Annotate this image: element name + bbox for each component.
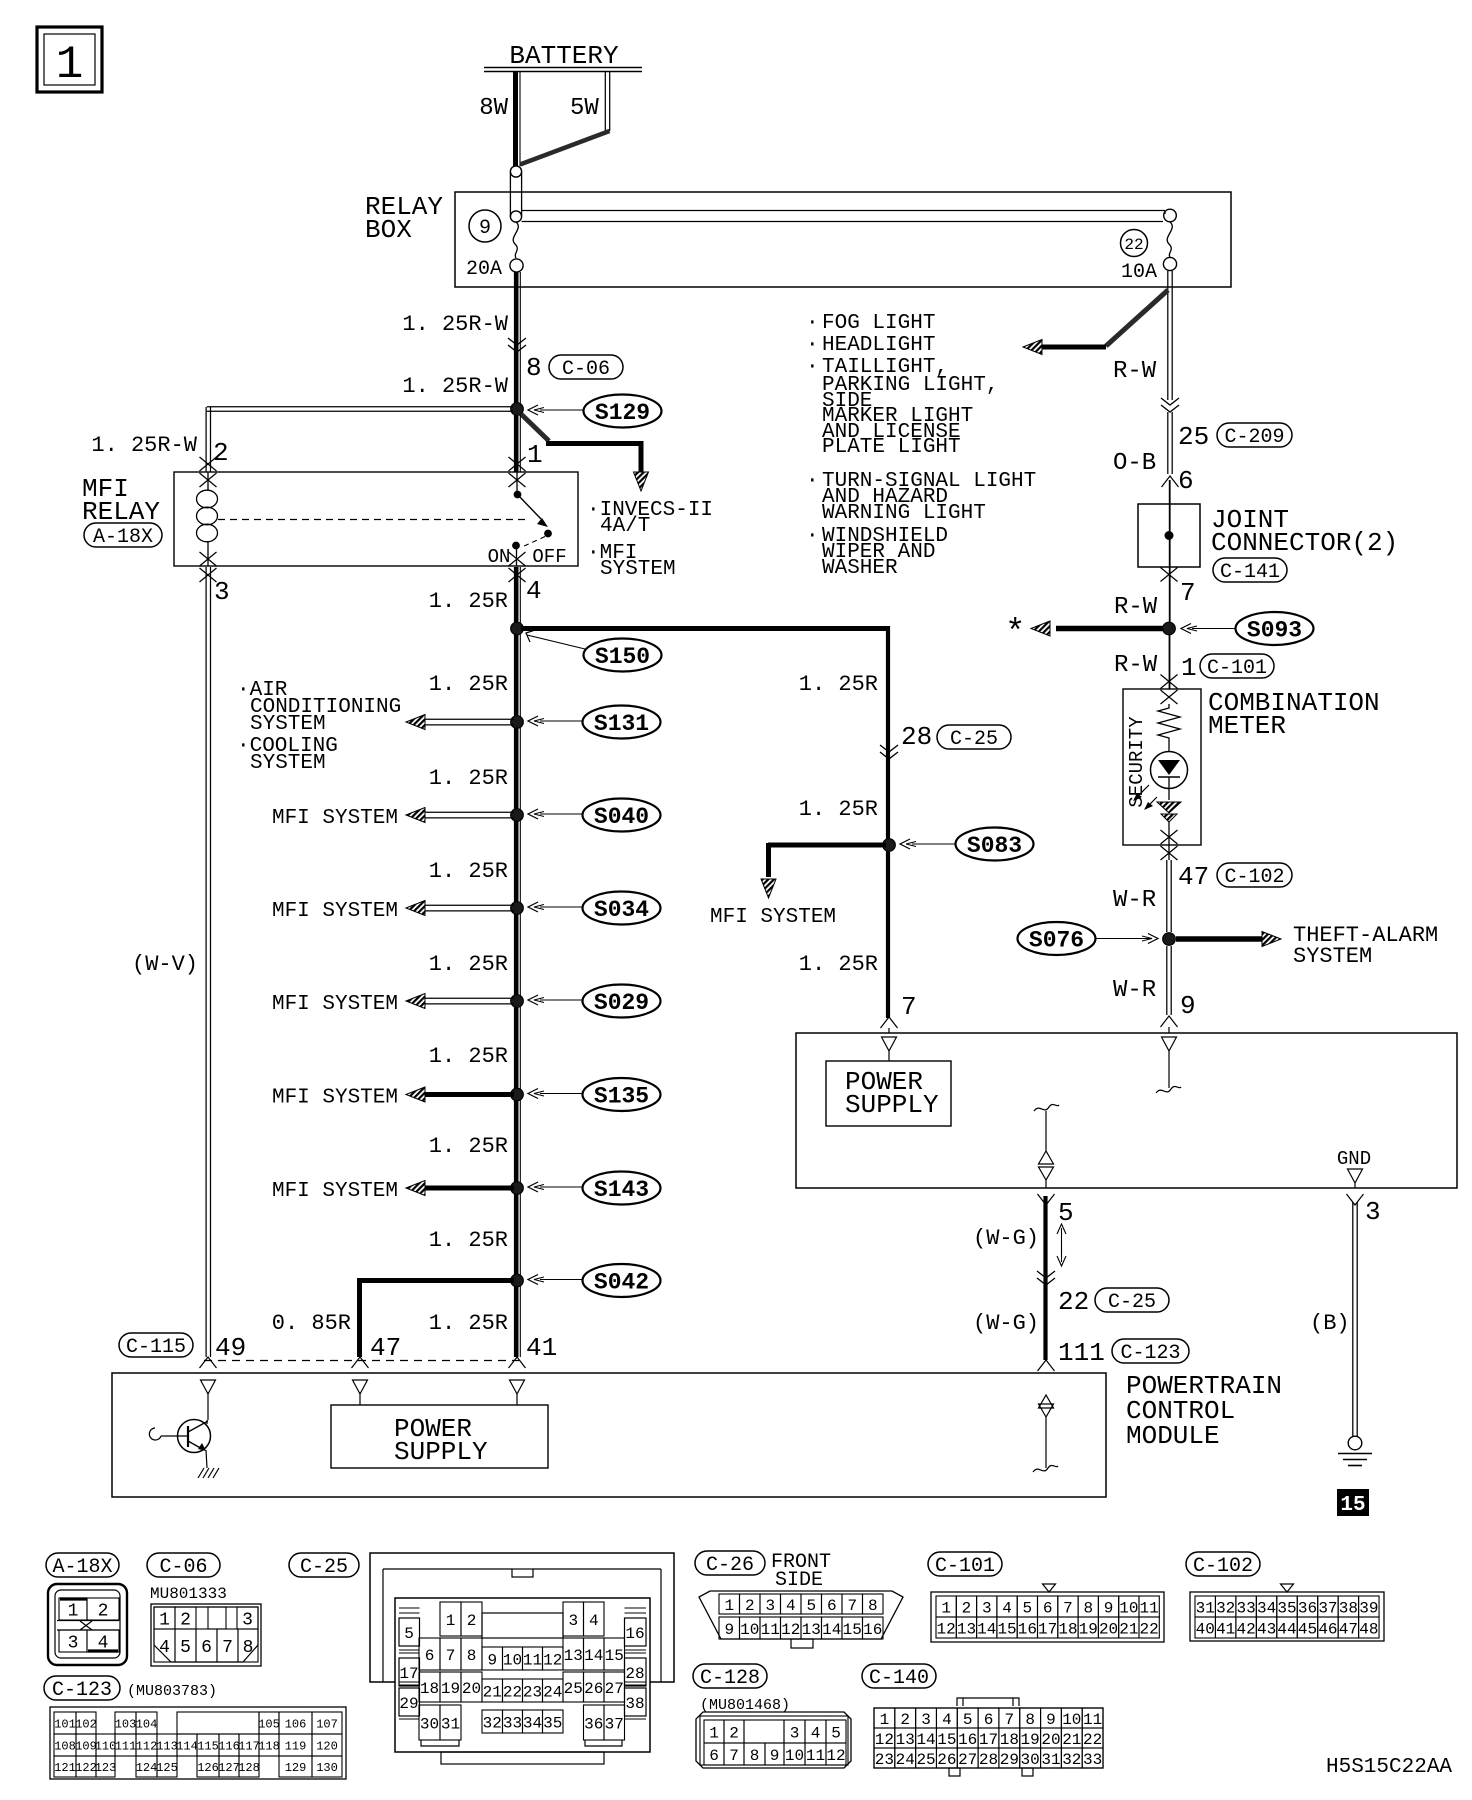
svg-text:43: 43 bbox=[1257, 1620, 1276, 1638]
svg-text:25: 25 bbox=[1178, 422, 1209, 452]
svg-text:8: 8 bbox=[243, 1638, 254, 1658]
svg-text:C-102: C-102 bbox=[1193, 1555, 1253, 1578]
svg-text:S029: S029 bbox=[594, 990, 649, 1016]
svg-text:BOX: BOX bbox=[365, 215, 412, 245]
svg-text:1. 25R: 1. 25R bbox=[429, 1044, 508, 1069]
svg-text:130: 130 bbox=[316, 1761, 338, 1775]
svg-text:14: 14 bbox=[822, 1621, 841, 1639]
svg-text:9: 9 bbox=[770, 1747, 780, 1765]
svg-text:(W-V): (W-V) bbox=[132, 952, 198, 977]
svg-text:12: 12 bbox=[543, 1651, 562, 1669]
svg-text:R-W: R-W bbox=[1113, 358, 1157, 385]
svg-text:120: 120 bbox=[316, 1739, 338, 1753]
svg-text:1. 25R: 1. 25R bbox=[429, 859, 508, 884]
svg-text:C-06: C-06 bbox=[159, 1556, 207, 1579]
svg-text:6: 6 bbox=[984, 1711, 994, 1729]
svg-text:9: 9 bbox=[479, 217, 491, 240]
svg-text:35: 35 bbox=[543, 1714, 562, 1732]
svg-text:3: 3 bbox=[214, 577, 230, 607]
svg-text:7: 7 bbox=[1180, 578, 1196, 608]
svg-text:117: 117 bbox=[238, 1739, 260, 1753]
svg-text:3: 3 bbox=[568, 1612, 578, 1630]
svg-text:MFI SYSTEM: MFI SYSTEM bbox=[710, 906, 836, 929]
svg-text:S135: S135 bbox=[594, 1084, 649, 1110]
svg-text:1: 1 bbox=[159, 1610, 170, 1630]
svg-text:MFI SYSTEM: MFI SYSTEM bbox=[272, 900, 398, 923]
svg-text:4: 4 bbox=[526, 576, 542, 606]
svg-text:27: 27 bbox=[605, 1680, 624, 1698]
svg-text:20: 20 bbox=[1099, 1620, 1118, 1638]
svg-text:33: 33 bbox=[1083, 1751, 1102, 1769]
svg-text:·: · bbox=[806, 312, 819, 335]
svg-text:110: 110 bbox=[95, 1739, 117, 1753]
svg-text:·: · bbox=[806, 334, 819, 357]
svg-text:2: 2 bbox=[213, 438, 229, 468]
svg-text:C-06: C-06 bbox=[562, 358, 610, 381]
svg-text:4: 4 bbox=[811, 1724, 821, 1742]
svg-text:1. 25R: 1. 25R bbox=[429, 589, 508, 614]
svg-text:25: 25 bbox=[916, 1751, 935, 1769]
svg-text:24: 24 bbox=[543, 1683, 562, 1701]
svg-text:1. 25R: 1. 25R bbox=[429, 952, 508, 977]
svg-text:122: 122 bbox=[75, 1761, 97, 1775]
svg-text:18: 18 bbox=[1058, 1620, 1077, 1638]
svg-text:32: 32 bbox=[1062, 1751, 1081, 1769]
svg-text:C-140: C-140 bbox=[869, 1667, 929, 1690]
svg-text:107: 107 bbox=[316, 1717, 338, 1731]
svg-text:3: 3 bbox=[921, 1711, 931, 1729]
svg-text:24: 24 bbox=[896, 1751, 915, 1769]
svg-text:H5S15C22AA: H5S15C22AA bbox=[1326, 1756, 1452, 1779]
svg-text:34: 34 bbox=[1257, 1599, 1276, 1617]
svg-text:9: 9 bbox=[1104, 1599, 1114, 1617]
svg-text:8: 8 bbox=[750, 1747, 760, 1765]
svg-text:5: 5 bbox=[806, 1597, 816, 1615]
svg-text:126: 126 bbox=[197, 1761, 219, 1775]
svg-text:S034: S034 bbox=[594, 897, 649, 923]
svg-text:1: 1 bbox=[1181, 653, 1197, 683]
svg-text:4: 4 bbox=[159, 1638, 170, 1658]
svg-text:118: 118 bbox=[258, 1739, 280, 1753]
svg-text:7: 7 bbox=[1063, 1599, 1073, 1617]
svg-text:6: 6 bbox=[709, 1747, 719, 1765]
svg-text:11: 11 bbox=[806, 1747, 825, 1765]
svg-text:2: 2 bbox=[467, 1612, 477, 1630]
svg-text:C-115: C-115 bbox=[126, 1336, 186, 1359]
svg-text:41: 41 bbox=[526, 1333, 557, 1363]
svg-text:15: 15 bbox=[997, 1620, 1016, 1638]
svg-text:119: 119 bbox=[285, 1739, 307, 1753]
svg-text:11: 11 bbox=[1140, 1599, 1159, 1617]
svg-text:2: 2 bbox=[180, 1610, 191, 1630]
svg-text:MODULE: MODULE bbox=[1126, 1421, 1220, 1451]
svg-text:C-209: C-209 bbox=[1224, 426, 1284, 449]
svg-text:106: 106 bbox=[285, 1717, 307, 1731]
svg-text:C-26: C-26 bbox=[706, 1554, 754, 1577]
svg-text:7: 7 bbox=[729, 1747, 739, 1765]
svg-text:16: 16 bbox=[625, 1625, 644, 1643]
svg-text:13: 13 bbox=[802, 1621, 821, 1639]
svg-text:S093: S093 bbox=[1247, 618, 1302, 644]
svg-text:103: 103 bbox=[115, 1717, 137, 1731]
svg-text:25: 25 bbox=[564, 1680, 583, 1698]
svg-text:SYSTEM: SYSTEM bbox=[1293, 944, 1372, 969]
svg-text:49: 49 bbox=[215, 1333, 246, 1363]
svg-text:21: 21 bbox=[483, 1683, 502, 1701]
svg-text:4: 4 bbox=[589, 1612, 599, 1630]
svg-text:10: 10 bbox=[503, 1651, 522, 1669]
svg-text:OFF: OFF bbox=[532, 546, 566, 568]
svg-text:6: 6 bbox=[1178, 466, 1194, 496]
svg-text:28: 28 bbox=[979, 1751, 998, 1769]
svg-text:16: 16 bbox=[863, 1621, 882, 1639]
svg-text:(B): (B) bbox=[1310, 1311, 1350, 1336]
svg-text:SUPPLY: SUPPLY bbox=[845, 1090, 939, 1120]
svg-text:46: 46 bbox=[1318, 1620, 1337, 1638]
svg-text:1: 1 bbox=[709, 1724, 719, 1742]
svg-text:METER: METER bbox=[1208, 711, 1286, 741]
svg-text:8: 8 bbox=[526, 353, 542, 383]
svg-text:6: 6 bbox=[201, 1638, 212, 1658]
svg-text:9: 9 bbox=[724, 1621, 734, 1639]
svg-text:30: 30 bbox=[420, 1715, 439, 1733]
svg-text:1. 25R-W: 1. 25R-W bbox=[402, 374, 508, 399]
svg-text:112: 112 bbox=[136, 1739, 158, 1753]
svg-text:33: 33 bbox=[1237, 1599, 1256, 1617]
svg-text:3: 3 bbox=[982, 1599, 992, 1617]
svg-text:21: 21 bbox=[1119, 1620, 1138, 1638]
svg-text:1. 25R: 1. 25R bbox=[429, 1134, 508, 1159]
svg-text:22: 22 bbox=[1140, 1620, 1159, 1638]
svg-text:20A: 20A bbox=[466, 258, 502, 281]
svg-text:28: 28 bbox=[901, 722, 932, 752]
svg-text:9: 9 bbox=[487, 1651, 497, 1669]
svg-text:129: 129 bbox=[285, 1761, 307, 1775]
svg-text:A-18X: A-18X bbox=[93, 526, 153, 549]
svg-text:S143: S143 bbox=[594, 1177, 649, 1203]
svg-text:47: 47 bbox=[1339, 1620, 1358, 1638]
svg-text:PLATE LIGHT: PLATE LIGHT bbox=[822, 436, 961, 459]
svg-text:6: 6 bbox=[425, 1647, 435, 1665]
svg-text:8W: 8W bbox=[479, 95, 508, 122]
svg-text:3: 3 bbox=[790, 1724, 800, 1742]
svg-text:CONNECTOR(2): CONNECTOR(2) bbox=[1211, 528, 1398, 558]
svg-text:8: 8 bbox=[1083, 1599, 1093, 1617]
svg-text:26: 26 bbox=[937, 1751, 956, 1769]
svg-text:S042: S042 bbox=[594, 1270, 649, 1296]
svg-text:1: 1 bbox=[68, 1601, 79, 1621]
svg-text:1. 25R: 1. 25R bbox=[429, 1228, 508, 1253]
svg-text:SYSTEM: SYSTEM bbox=[250, 752, 326, 775]
svg-text:22: 22 bbox=[1083, 1731, 1102, 1749]
svg-text:1: 1 bbox=[880, 1711, 890, 1729]
svg-text:8: 8 bbox=[868, 1597, 878, 1615]
svg-text:FOG LIGHT: FOG LIGHT bbox=[822, 312, 935, 335]
svg-text:47: 47 bbox=[370, 1333, 401, 1363]
svg-text:R-W: R-W bbox=[1114, 594, 1158, 621]
svg-text:W-R: W-R bbox=[1113, 887, 1156, 914]
svg-text:33: 33 bbox=[503, 1714, 522, 1732]
svg-text:·: · bbox=[806, 525, 819, 548]
svg-text:13: 13 bbox=[564, 1647, 583, 1665]
svg-text:20: 20 bbox=[462, 1680, 481, 1698]
svg-text:2: 2 bbox=[962, 1599, 972, 1617]
svg-text:S150: S150 bbox=[595, 644, 650, 670]
svg-text:4: 4 bbox=[942, 1711, 952, 1729]
svg-text:17: 17 bbox=[399, 1665, 418, 1683]
svg-text:16: 16 bbox=[958, 1731, 977, 1749]
svg-text:12: 12 bbox=[875, 1731, 894, 1749]
svg-text:48: 48 bbox=[1359, 1620, 1378, 1638]
svg-text:2: 2 bbox=[98, 1601, 109, 1621]
svg-text:BATTERY: BATTERY bbox=[509, 41, 619, 71]
svg-text:C-25: C-25 bbox=[950, 728, 998, 751]
svg-text:37: 37 bbox=[1318, 1599, 1337, 1617]
svg-text:8: 8 bbox=[467, 1647, 477, 1665]
svg-text:125: 125 bbox=[156, 1761, 178, 1775]
svg-text:S131: S131 bbox=[594, 711, 649, 737]
svg-text:(W-G): (W-G) bbox=[973, 1226, 1039, 1251]
svg-text:5: 5 bbox=[831, 1724, 841, 1742]
svg-text:5: 5 bbox=[963, 1711, 973, 1729]
svg-text:19: 19 bbox=[1079, 1620, 1098, 1638]
svg-text:7: 7 bbox=[222, 1638, 233, 1658]
svg-text:GND: GND bbox=[1337, 1148, 1371, 1170]
svg-text:MFI SYSTEM: MFI SYSTEM bbox=[272, 807, 398, 830]
svg-text:34: 34 bbox=[523, 1714, 542, 1732]
svg-text:11: 11 bbox=[523, 1651, 542, 1669]
svg-text:26: 26 bbox=[584, 1680, 603, 1698]
svg-text:27: 27 bbox=[958, 1751, 977, 1769]
svg-text:ON: ON bbox=[488, 546, 511, 568]
svg-text:102: 102 bbox=[75, 1717, 97, 1731]
svg-text:40: 40 bbox=[1196, 1620, 1215, 1638]
svg-text:31: 31 bbox=[1041, 1751, 1060, 1769]
svg-text:21: 21 bbox=[1062, 1731, 1081, 1749]
svg-text:101: 101 bbox=[54, 1717, 76, 1731]
svg-text:SYSTEM: SYSTEM bbox=[600, 558, 676, 581]
svg-text:1. 25R-W: 1. 25R-W bbox=[91, 433, 197, 458]
svg-text:10A: 10A bbox=[1121, 261, 1157, 284]
svg-text:10: 10 bbox=[1062, 1711, 1081, 1729]
svg-text:17: 17 bbox=[979, 1731, 998, 1749]
svg-text:7: 7 bbox=[901, 992, 917, 1022]
svg-text:MFI SYSTEM: MFI SYSTEM bbox=[272, 1087, 398, 1110]
svg-text:113: 113 bbox=[156, 1739, 178, 1753]
svg-text:12: 12 bbox=[826, 1747, 845, 1765]
svg-text:MFI SYSTEM: MFI SYSTEM bbox=[272, 1180, 398, 1203]
svg-text:32: 32 bbox=[1216, 1599, 1235, 1617]
svg-text:121: 121 bbox=[54, 1761, 76, 1775]
svg-text:3: 3 bbox=[765, 1597, 775, 1615]
svg-text:38: 38 bbox=[625, 1695, 644, 1713]
svg-text:1: 1 bbox=[56, 39, 84, 91]
svg-text:15: 15 bbox=[843, 1621, 862, 1639]
svg-text:127: 127 bbox=[218, 1761, 240, 1775]
svg-text:42: 42 bbox=[1237, 1620, 1256, 1638]
svg-text:SIDE: SIDE bbox=[775, 1569, 823, 1592]
svg-text:(W-G): (W-G) bbox=[973, 1311, 1039, 1336]
svg-text:A-18X: A-18X bbox=[52, 1556, 112, 1579]
svg-text:23: 23 bbox=[523, 1683, 542, 1701]
svg-text:4: 4 bbox=[786, 1597, 796, 1615]
svg-text:1. 25R: 1. 25R bbox=[799, 952, 878, 977]
svg-text:9: 9 bbox=[1046, 1711, 1056, 1729]
svg-text:5: 5 bbox=[180, 1638, 191, 1658]
svg-text:5: 5 bbox=[1058, 1198, 1074, 1228]
svg-text:3: 3 bbox=[1365, 1197, 1381, 1227]
svg-text:15: 15 bbox=[1340, 1494, 1365, 1517]
svg-text:14: 14 bbox=[977, 1620, 996, 1638]
svg-text:1: 1 bbox=[527, 440, 543, 470]
svg-text:104: 104 bbox=[136, 1717, 158, 1731]
svg-text:8: 8 bbox=[1025, 1711, 1035, 1729]
svg-text:C-123: C-123 bbox=[1120, 1342, 1180, 1365]
svg-text:18: 18 bbox=[1000, 1731, 1019, 1749]
svg-text:HEADLIGHT: HEADLIGHT bbox=[822, 334, 935, 357]
svg-text:C-101: C-101 bbox=[935, 1555, 995, 1578]
svg-text:C-123: C-123 bbox=[52, 1679, 112, 1702]
svg-text:111: 111 bbox=[115, 1739, 137, 1753]
svg-text:7: 7 bbox=[847, 1597, 857, 1615]
svg-text:4: 4 bbox=[1002, 1599, 1012, 1617]
svg-text:5: 5 bbox=[1023, 1599, 1033, 1617]
svg-text:22: 22 bbox=[1124, 236, 1143, 254]
svg-text:C-128: C-128 bbox=[700, 1667, 760, 1690]
svg-text:14: 14 bbox=[584, 1647, 603, 1665]
svg-text:7: 7 bbox=[446, 1647, 456, 1665]
svg-text:14: 14 bbox=[916, 1731, 935, 1749]
svg-text:10: 10 bbox=[785, 1747, 804, 1765]
svg-text:2: 2 bbox=[729, 1724, 739, 1742]
svg-text:44: 44 bbox=[1277, 1620, 1296, 1638]
svg-text:*: * bbox=[1005, 615, 1025, 653]
svg-text:6: 6 bbox=[1043, 1599, 1053, 1617]
svg-text:109: 109 bbox=[75, 1739, 97, 1753]
svg-text:35: 35 bbox=[1277, 1599, 1296, 1617]
svg-text:17: 17 bbox=[1038, 1620, 1057, 1638]
svg-text:3: 3 bbox=[242, 1610, 253, 1630]
svg-text:41: 41 bbox=[1216, 1620, 1235, 1638]
svg-text:30: 30 bbox=[1021, 1751, 1040, 1769]
svg-text:124: 124 bbox=[136, 1761, 158, 1775]
svg-text:12: 12 bbox=[937, 1620, 956, 1638]
svg-text:C-25: C-25 bbox=[300, 1556, 348, 1579]
svg-text:1. 25R: 1. 25R bbox=[429, 672, 508, 697]
svg-text:1: 1 bbox=[941, 1599, 951, 1617]
svg-text:S076: S076 bbox=[1029, 928, 1084, 954]
svg-text:29: 29 bbox=[399, 1695, 418, 1713]
svg-text:128: 128 bbox=[238, 1761, 260, 1775]
svg-text:2: 2 bbox=[900, 1711, 910, 1729]
svg-text:18: 18 bbox=[420, 1680, 439, 1698]
svg-text:1: 1 bbox=[446, 1612, 456, 1630]
svg-text:45: 45 bbox=[1298, 1620, 1317, 1638]
svg-text:36: 36 bbox=[1298, 1599, 1317, 1617]
svg-text:1. 25R: 1. 25R bbox=[799, 672, 878, 697]
svg-text:MFI SYSTEM: MFI SYSTEM bbox=[272, 993, 398, 1016]
svg-text:C-141: C-141 bbox=[1220, 561, 1280, 584]
svg-text:1. 25R: 1. 25R bbox=[799, 797, 878, 822]
svg-text:31: 31 bbox=[1196, 1599, 1215, 1617]
svg-text:31: 31 bbox=[441, 1715, 460, 1733]
svg-text:S083: S083 bbox=[967, 833, 1022, 859]
svg-text:16: 16 bbox=[1018, 1620, 1037, 1638]
svg-text:39: 39 bbox=[1359, 1599, 1378, 1617]
svg-text:1. 25R: 1. 25R bbox=[429, 1311, 508, 1336]
svg-text:SYSTEM: SYSTEM bbox=[250, 713, 326, 736]
svg-text:13: 13 bbox=[957, 1620, 976, 1638]
svg-text:2: 2 bbox=[745, 1597, 755, 1615]
svg-text:15: 15 bbox=[937, 1731, 956, 1749]
svg-text:3: 3 bbox=[68, 1633, 79, 1653]
svg-text:9: 9 bbox=[1180, 991, 1196, 1021]
svg-text:WARNING LIGHT: WARNING LIGHT bbox=[822, 502, 986, 525]
svg-text:111: 111 bbox=[1058, 1338, 1105, 1368]
svg-text:32: 32 bbox=[483, 1714, 502, 1732]
svg-text:5: 5 bbox=[404, 1625, 414, 1643]
svg-text:C-101: C-101 bbox=[1207, 657, 1267, 680]
svg-text:O-B: O-B bbox=[1113, 450, 1156, 477]
svg-text:S129: S129 bbox=[595, 400, 650, 426]
svg-text:0. 85R: 0. 85R bbox=[272, 1311, 351, 1336]
svg-text:116: 116 bbox=[218, 1739, 240, 1753]
svg-text:5W: 5W bbox=[570, 95, 599, 122]
svg-text:W-R: W-R bbox=[1113, 977, 1156, 1004]
svg-text:SUPPLY: SUPPLY bbox=[394, 1437, 488, 1467]
svg-text:13: 13 bbox=[896, 1731, 915, 1749]
svg-text:15: 15 bbox=[605, 1647, 624, 1665]
svg-text:11: 11 bbox=[761, 1621, 780, 1639]
svg-text:10: 10 bbox=[1119, 1599, 1138, 1617]
svg-text:R-W: R-W bbox=[1114, 652, 1158, 679]
svg-text:4A/T: 4A/T bbox=[600, 515, 650, 538]
svg-text:1: 1 bbox=[724, 1597, 734, 1615]
svg-text:23: 23 bbox=[875, 1751, 894, 1769]
svg-text:20: 20 bbox=[1041, 1731, 1060, 1749]
svg-text:38: 38 bbox=[1339, 1599, 1358, 1617]
svg-text:22: 22 bbox=[1058, 1287, 1089, 1317]
svg-text:6: 6 bbox=[827, 1597, 837, 1615]
svg-text:29: 29 bbox=[1000, 1751, 1019, 1769]
svg-text:1. 25R: 1. 25R bbox=[429, 766, 508, 791]
svg-text:·: · bbox=[806, 470, 819, 493]
svg-text:WASHER: WASHER bbox=[822, 557, 898, 580]
svg-text:(MU803783): (MU803783) bbox=[127, 1683, 217, 1700]
svg-text:7: 7 bbox=[1005, 1711, 1015, 1729]
svg-text:115: 115 bbox=[197, 1739, 219, 1753]
svg-text:37: 37 bbox=[605, 1715, 624, 1733]
svg-text:22: 22 bbox=[503, 1683, 522, 1701]
svg-text:1. 25R-W: 1. 25R-W bbox=[402, 312, 508, 337]
svg-text:10: 10 bbox=[740, 1621, 759, 1639]
svg-text:108: 108 bbox=[54, 1739, 76, 1753]
svg-text:114: 114 bbox=[176, 1739, 198, 1753]
svg-text:11: 11 bbox=[1083, 1711, 1102, 1729]
svg-text:12: 12 bbox=[781, 1621, 800, 1639]
svg-text:19: 19 bbox=[1021, 1731, 1040, 1749]
svg-text:·: · bbox=[806, 356, 819, 379]
svg-text:19: 19 bbox=[441, 1680, 460, 1698]
svg-text:MU801333: MU801333 bbox=[150, 1585, 227, 1603]
svg-text:123: 123 bbox=[95, 1761, 117, 1775]
svg-text:C-25: C-25 bbox=[1108, 1291, 1156, 1314]
svg-text:S040: S040 bbox=[594, 804, 649, 830]
svg-text:28: 28 bbox=[625, 1665, 644, 1683]
svg-text:47: 47 bbox=[1178, 862, 1209, 892]
svg-text:C-102: C-102 bbox=[1224, 866, 1284, 889]
svg-text:36: 36 bbox=[584, 1715, 603, 1733]
